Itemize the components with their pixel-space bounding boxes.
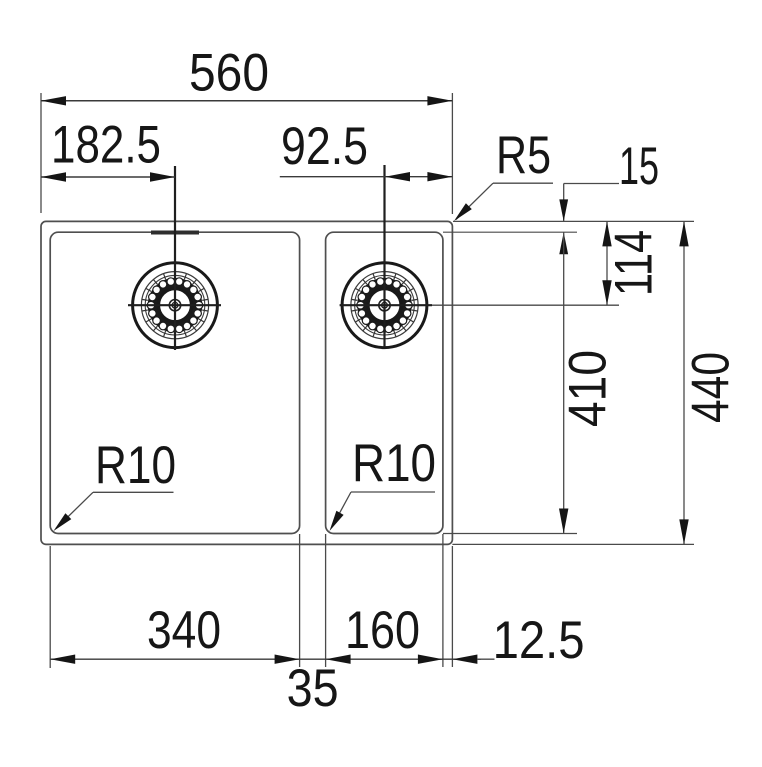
bottom dimension line (340 / 35 / 160 / 12.5) — [50, 658, 481, 660]
dim 182.5: dimension line — [41, 176, 175, 178]
svg-text:15: 15 — [619, 137, 659, 196]
dim 12.5: left-pointing arrow at rim edge — [452, 655, 477, 664]
drain strainer 1: dark annulus band — [153, 283, 198, 328]
R5 leader diagonal — [456, 183, 493, 219]
drain strainer 1: centre knob — [169, 300, 180, 311]
drain strainer 2: centre knob — [379, 300, 390, 311]
drain 2 crosshair horizontal — [340, 304, 432, 306]
bowl 2 (160x410) — [326, 232, 443, 533]
dim 15: leader line to label — [564, 183, 619, 185]
dim 12.5: leader to label — [477, 658, 495, 660]
bottom extension line at bowl2 right edge — [442, 534, 444, 667]
dim 92.5: right arrow — [427, 172, 452, 181]
svg-text:12.5: 12.5 — [493, 611, 585, 670]
dim 440: down arrow — [679, 519, 688, 544]
R5 leader underline — [493, 182, 553, 184]
svg-text:560: 560 — [189, 44, 269, 103]
drain 1 crosshair vertical / centreline to 182.5 dim — [174, 166, 176, 350]
R5 leader arrow at rim corner — [454, 203, 472, 221]
bottom extension line at bowl1 left edge — [49, 546, 51, 668]
dim 440: up arrow — [679, 221, 688, 246]
sink outer rim 560x440 — [41, 221, 452, 544]
drain 2 crosshair vertical / centreline to 92.5 dim — [383, 165, 385, 347]
dim 15: down arrow to rim top edge — [559, 199, 568, 221]
drain strainer 2: pattern outer ring — [355, 275, 415, 335]
bottom extension line at rim right edge — [451, 546, 453, 667]
dim 160: left arrow — [326, 655, 351, 664]
R10 left leader underline — [93, 491, 174, 493]
drain strainer 1: pattern outer ring — [145, 275, 205, 335]
dim 560: left arrow — [41, 96, 66, 105]
dim 15: vertical line above — [563, 184, 565, 222]
R10 left leader diagonal — [56, 492, 93, 528]
dim 560: dimension line — [41, 100, 452, 102]
dim 440: dimension line — [683, 221, 685, 544]
dim 340: left arrow — [50, 655, 75, 664]
drain 1 crosshair horizontal — [128, 304, 221, 306]
svg-text:114: 114 — [605, 230, 664, 296]
drain strainer 1: thin ring — [141, 272, 208, 339]
R10 right leader underline — [351, 491, 435, 493]
rim bottom edge extension line to the right — [452, 543, 694, 545]
R10 left arrow at bowl1 corner — [54, 513, 72, 531]
drain strainer 2: thin ring — [351, 272, 418, 339]
bottom extension line at bowl1 right edge — [299, 534, 301, 667]
dim 410: dimension line — [563, 232, 565, 533]
svg-text:R10: R10 — [352, 434, 436, 493]
svg-text:440: 440 — [682, 352, 741, 423]
tap-hole tick mark on bowl 1 top edge — [151, 231, 199, 235]
svg-text:92.5: 92.5 — [281, 117, 368, 176]
svg-text:182.5: 182.5 — [51, 116, 161, 175]
drain strainer 2: outer circle — [342, 263, 427, 348]
dim 114: down arrow — [602, 280, 611, 305]
dim 92.5: dimension line with left leader under label — [280, 176, 453, 178]
drain strainer 1: inner bold circle — [158, 289, 191, 322]
drain strainer 1: radial spokes — [142, 272, 208, 339]
svg-text:35: 35 — [287, 659, 339, 718]
drain 2 centreline extension right (for 114 dim) — [432, 304, 619, 306]
svg-text:160: 160 — [345, 601, 420, 660]
dim 160: right arrow (shared with dim 12.5) — [418, 655, 443, 664]
dim 560: left extension line — [40, 93, 42, 213]
R10 right arrow at bowl2 corner — [330, 511, 344, 531]
bowl 1 (340x410) — [50, 232, 299, 533]
rim top edge extension line to the right — [453, 220, 694, 222]
drain strainer 2: radial spokes — [352, 272, 418, 339]
svg-text:R10: R10 — [95, 436, 176, 495]
dim 340: right arrow — [275, 655, 300, 664]
dim 560: right arrow — [427, 96, 452, 105]
drain strainer 1: outer circle — [133, 263, 218, 348]
R10 right leader diagonal — [332, 492, 351, 527]
bowl bottom edge extension line to the right — [443, 533, 577, 535]
dim 114: up arrow — [602, 221, 611, 246]
dim 92.5: left arrow (outward at drain centreline) — [385, 172, 410, 181]
drain strainer 2: dark annulus band — [362, 283, 407, 328]
svg-text:410: 410 — [559, 350, 618, 427]
dim 114: dimension line — [606, 221, 608, 305]
dim 182.5: right arrow — [150, 172, 175, 181]
dim 15: up arrow to bowl top edge (shared with dim 410) — [559, 232, 568, 254]
drain strainer 2: white scallop holes — [357, 278, 413, 333]
svg-text:340: 340 — [147, 601, 221, 660]
dim 560: right extension line — [451, 93, 453, 214]
dim 182.5: left arrow — [41, 172, 66, 181]
svg-text:R5: R5 — [496, 126, 551, 185]
drain strainer 1: white scallop holes — [147, 278, 203, 333]
bowl top edge extension line to the right — [443, 231, 577, 233]
drain strainer 2: inner bold circle — [368, 289, 401, 322]
bottom extension line at bowl2 left edge — [325, 534, 327, 667]
dim 410: down arrow at bowl bottom — [559, 509, 568, 534]
